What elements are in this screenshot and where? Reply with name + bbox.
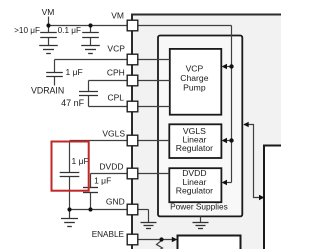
svg-text:VDRAIN: VDRAIN xyxy=(31,86,64,96)
svg-text:0.1 μF: 0.1 μF xyxy=(58,26,81,35)
svg-text:DVDD: DVDD xyxy=(99,162,123,172)
svg-text:VM: VM xyxy=(42,7,55,17)
svg-text:VGLS: VGLS xyxy=(102,129,125,139)
svg-text:VCP: VCP xyxy=(107,44,125,54)
svg-text:Pump: Pump xyxy=(183,82,206,92)
svg-text:Charge: Charge xyxy=(180,73,208,83)
svg-text:Regulator: Regulator xyxy=(176,143,213,153)
svg-text:Power Supplies: Power Supplies xyxy=(170,201,228,211)
svg-text:Regulator: Regulator xyxy=(176,185,213,195)
svg-text:47 nF: 47 nF xyxy=(61,98,85,108)
svg-text:VM: VM xyxy=(111,10,124,20)
svg-text:CPH: CPH xyxy=(107,68,125,78)
svg-text:GND: GND xyxy=(106,197,125,207)
svg-text:CPL: CPL xyxy=(107,93,124,103)
svg-text:1 μF: 1 μF xyxy=(94,176,111,186)
svg-text:ENABLE: ENABLE xyxy=(92,230,125,239)
svg-text:1 μF: 1 μF xyxy=(66,67,83,77)
svg-text:>10 μF: >10 μF xyxy=(14,26,40,35)
svg-text:1 μF: 1 μF xyxy=(72,156,89,166)
